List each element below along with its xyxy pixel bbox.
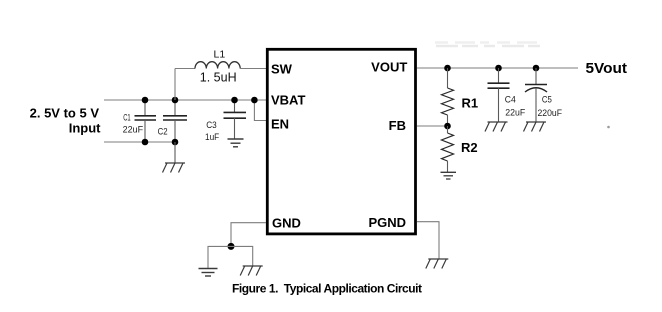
- svg-text:L1: L1: [214, 49, 226, 61]
- node: EN branch junction: [251, 97, 258, 104]
- svg-text:VOUT: VOUT: [371, 59, 407, 74]
- node: C1 top junction: [142, 97, 149, 104]
- wire: input bottom rail: [104, 141, 175, 143]
- ground (earth) at GND: [199, 269, 218, 277]
- svg-text:C1: C1: [123, 113, 131, 123]
- wire: GND pin to ground node: [231, 223, 266, 247]
- svg-text:1uF: 1uF: [205, 132, 220, 142]
- wire: right branch to chassis ground: [231, 246, 253, 266]
- node: C5 junction: [533, 65, 540, 72]
- ground (earth) under C3: [228, 139, 244, 147]
- ground (chassis) under C2: [163, 163, 186, 173]
- capacitor C2: [163, 100, 187, 142]
- value label C1 22uF: [123, 113, 144, 135]
- wire: riser from VBAT rail up to L1: [174, 69, 176, 101]
- resistor R1: [442, 68, 454, 126]
- svg-text:220uF: 220uF: [538, 108, 563, 118]
- ground (chassis) at PGND: [426, 259, 449, 269]
- ground (chassis) under C4: [485, 122, 508, 132]
- capacitor C1: [135, 100, 157, 142]
- svg-text:C2: C2: [158, 126, 168, 136]
- svg-text:Figure 1. Typical Application: Figure 1. Typical Application Circuit: [232, 282, 422, 296]
- capacitor C5 (polarized): [525, 68, 547, 122]
- svg-text:C4: C4: [505, 94, 516, 104]
- ground (earth) under R2: [441, 172, 457, 179]
- capacitor C3: [224, 100, 247, 139]
- node: R1 top junction: [444, 65, 451, 72]
- svg-text:Input: Input: [69, 121, 101, 136]
- wire: left branch to earth ground: [208, 246, 231, 268]
- svg-text:22uF: 22uF: [123, 124, 144, 134]
- svg-text:2. 5V to 5 V: 2. 5V to 5 V: [30, 106, 100, 121]
- node: C2 bottom junction: [172, 139, 179, 146]
- inductor L1: [175, 62, 266, 69]
- node: FB junction: [444, 123, 451, 130]
- stray mark: [607, 126, 610, 129]
- value label C3 1uF: [205, 120, 220, 142]
- input label: 2.5V to 5V Input: [30, 106, 102, 136]
- wire: VOUT output rail: [417, 67, 578, 69]
- node: C4 junction: [495, 65, 502, 72]
- IC U1: [267, 49, 415, 234]
- node: GND junction: [228, 243, 235, 250]
- svg-text:5Vout: 5Vout: [586, 60, 628, 77]
- svg-text:22uF: 22uF: [505, 107, 525, 117]
- watermark remnant: [435, 43, 540, 47]
- svg-text:PGND: PGND: [368, 215, 406, 230]
- node: C1 bottom junction: [142, 139, 149, 146]
- svg-text:VBAT: VBAT: [271, 93, 305, 108]
- ground (chassis) under C5: [524, 122, 547, 132]
- wire: EN branch from VBAT rail: [254, 100, 266, 121]
- svg-text:GND: GND: [272, 216, 301, 231]
- resistor R2: [442, 126, 454, 172]
- svg-text:R1: R1: [462, 96, 479, 111]
- svg-text:C3: C3: [206, 120, 217, 130]
- svg-text:SW: SW: [271, 62, 293, 77]
- svg-text:EN: EN: [271, 116, 289, 131]
- svg-text:C5: C5: [542, 95, 552, 105]
- svg-text:1. 5uH: 1. 5uH: [200, 71, 237, 85]
- ground (chassis) at GND: [240, 266, 263, 276]
- node: C3 junction on VBAT rail: [231, 97, 238, 104]
- svg-text:R2: R2: [461, 140, 478, 155]
- svg-text:FB: FB: [389, 118, 406, 133]
- wire: input top rail to VBAT: [104, 99, 266, 101]
- wire: PGND pin to chassis ground: [417, 222, 439, 259]
- wire: bottom rail to ground stem: [174, 142, 176, 163]
- node: C2 top junction: [172, 97, 179, 104]
- capacitor C4: [488, 68, 510, 122]
- value label C5 220uF: [538, 95, 563, 118]
- wire: FB to divider: [417, 125, 448, 127]
- value label C4 22uF: [505, 94, 526, 117]
